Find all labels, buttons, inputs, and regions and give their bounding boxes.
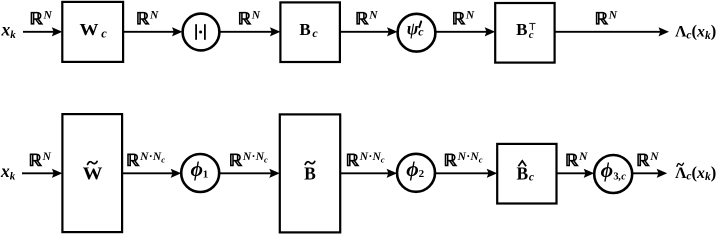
svg-text:c: c xyxy=(101,26,107,40)
wire B_c to psi with R^N label xyxy=(340,31,389,33)
svg-text:c: c xyxy=(418,25,424,39)
svg-text:N: N xyxy=(465,9,475,21)
svg-text:ϕ: ϕ xyxy=(601,158,613,182)
svg-text:N: N xyxy=(649,151,659,163)
wire abs to B_c with R^N label xyxy=(219,31,272,33)
svg-text:N·Nc: N·Nc xyxy=(242,151,268,165)
svg-text:c: c xyxy=(312,26,318,40)
svg-text:N: N xyxy=(43,9,53,21)
op phi_3c xyxy=(594,155,632,193)
block W_c xyxy=(62,2,123,62)
svg-text:3,c: 3,c xyxy=(613,172,626,183)
wire B_c^T to output with R^N label xyxy=(555,31,661,33)
svg-text:xk: xk xyxy=(0,161,16,183)
block W-tilde xyxy=(62,114,122,232)
svg-text:W: W xyxy=(80,20,99,39)
svg-text:xk: xk xyxy=(1,20,17,42)
op psi'_c xyxy=(398,14,436,52)
block B-hat_c xyxy=(497,144,556,204)
wire psi to B_c^T with R^N label xyxy=(435,31,486,33)
svg-text:2: 2 xyxy=(419,168,425,180)
wire phi_1 to B-tilde with R^{N.N_c} label xyxy=(219,172,271,174)
svg-text:B: B xyxy=(299,20,310,39)
svg-text:1: 1 xyxy=(203,168,209,180)
svg-text:ϕ: ϕ xyxy=(406,157,418,181)
op phi_1 xyxy=(181,154,219,192)
wire x_k to W_c with R^N label xyxy=(23,31,54,33)
svg-text:N: N xyxy=(578,151,588,163)
svg-text:B: B xyxy=(516,164,528,184)
svg-text:B: B xyxy=(516,20,527,39)
svg-text:c: c xyxy=(529,172,534,184)
svg-text:B: B xyxy=(304,164,316,184)
svg-text:N·Nc: N·Nc xyxy=(359,151,385,165)
svg-text:W: W xyxy=(83,164,103,184)
wire phi_2 to B-hat_c with R^{N.N_c} label xyxy=(435,172,489,174)
wire phi_3c to output with R^N label xyxy=(632,172,659,174)
wire x_k to W-tilde with R^N label xyxy=(22,172,54,174)
svg-text:N: N xyxy=(608,9,618,21)
svg-text:N: N xyxy=(149,9,159,21)
wire B-tilde to phi_2 with R^{N.N_c} label xyxy=(340,172,388,174)
svg-text:c: c xyxy=(529,29,534,41)
op abs |.| xyxy=(183,14,220,51)
svg-text:Λc(xk): Λc(xk) xyxy=(675,22,716,42)
op phi_2 xyxy=(397,154,435,192)
block B-tilde xyxy=(280,114,340,232)
block B_c^T xyxy=(495,3,554,63)
svg-text:N·Nc: N·Nc xyxy=(139,151,165,165)
svg-text:N: N xyxy=(368,9,378,21)
wire W-tilde to phi_1 with R^{N.N_c} label xyxy=(122,172,173,174)
svg-text:N·Nc: N·Nc xyxy=(457,151,483,165)
svg-text:ϕ: ϕ xyxy=(190,157,202,181)
wire B-hat_c to phi_3c with R^N label xyxy=(557,172,586,174)
svg-text:N: N xyxy=(251,9,261,21)
svg-text:N: N xyxy=(42,151,52,163)
wire W_c to abs with R^N label xyxy=(123,31,174,33)
svg-text:ψ: ψ xyxy=(407,18,419,38)
block B_c xyxy=(280,2,340,62)
